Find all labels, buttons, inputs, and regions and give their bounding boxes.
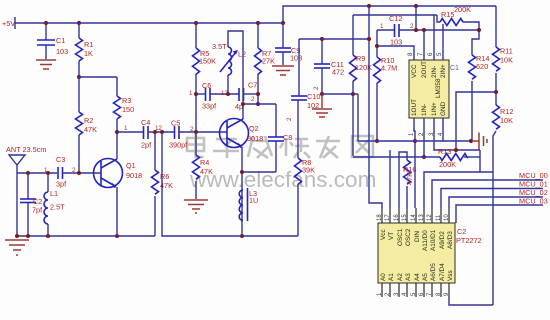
svg-text:620: 620 <box>476 62 488 71</box>
wire MCU_01 <box>441 189 543 209</box>
capacitor C10 <box>291 39 320 110</box>
svg-text:16: 16 <box>394 214 400 221</box>
svg-text:2OUT: 2OUT <box>421 61 428 78</box>
svg-text:11: 11 <box>436 214 442 221</box>
svg-text:2: 2 <box>72 167 76 174</box>
transistor Q1 <box>94 132 143 236</box>
svg-text:2: 2 <box>410 23 414 30</box>
wire C11 node to R9 <box>322 93 358 95</box>
wire +5V to PT2272 Vcc <box>369 6 382 208</box>
svg-text:Q1: Q1 <box>126 161 136 170</box>
svg-text:18: 18 <box>377 214 383 221</box>
svg-text:A2: A2 <box>397 273 404 281</box>
wire pin13 to vss net <box>424 172 493 208</box>
wire VCC pin8 <box>377 46 414 60</box>
svg-text:A3: A3 <box>405 273 412 281</box>
svg-text:47K: 47K <box>200 167 213 176</box>
svg-text:C1: C1 <box>450 65 459 72</box>
svg-text:13: 13 <box>419 214 425 221</box>
svg-text:9018: 9018 <box>126 171 142 180</box>
svg-text:C8: C8 <box>283 133 292 142</box>
node rail junctions <box>44 21 48 25</box>
svg-text:C5: C5 <box>171 119 180 128</box>
svg-text:MCU_03: MCU_03 <box>519 197 548 206</box>
svg-text:R2: R2 <box>84 116 93 125</box>
wire R9 top to R15 <box>353 14 437 16</box>
ground under C1 <box>36 60 56 69</box>
svg-text:1K: 1K <box>84 49 93 58</box>
svg-text:Vss: Vss <box>447 270 454 281</box>
wire C8 bottom to emitter column <box>242 171 276 173</box>
svg-text:200K: 200K <box>454 5 471 14</box>
svg-text:3pf: 3pf <box>56 180 67 189</box>
op-amp U1 LM358 <box>409 60 449 118</box>
svg-text:www.elecfans.com: www.elecfans.com <box>189 167 376 192</box>
svg-text:10: 10 <box>444 214 450 221</box>
capacitor C12 <box>377 14 479 47</box>
svg-text:1: 1 <box>409 132 415 136</box>
svg-text:C2: C2 <box>457 227 466 236</box>
svg-text:OSC2: OSC2 <box>405 228 412 246</box>
ground bottom-left rail <box>5 240 29 255</box>
wire antenna node to Q1 base <box>17 172 57 174</box>
svg-text:2IN-: 2IN- <box>431 66 438 78</box>
svg-text:R15: R15 <box>441 10 454 19</box>
resistor R2 <box>76 77 98 173</box>
svg-text:A8/D3: A8/D3 <box>447 231 454 249</box>
wire R9 node down to R13 <box>352 94 354 156</box>
wire pin5 up <box>442 24 444 60</box>
wire 1OUT to DIN <box>414 118 415 208</box>
svg-text:3.5T: 3.5T <box>212 42 227 51</box>
wire GND pin4 to ground <box>442 118 444 141</box>
svg-text:103: 103 <box>290 54 302 63</box>
resistor R3 <box>114 77 135 132</box>
svg-text:47K: 47K <box>405 172 414 185</box>
svg-text:33pf: 33pf <box>202 102 217 111</box>
svg-text:200K: 200K <box>439 160 456 169</box>
wire rail drop to C12 node <box>415 6 417 30</box>
svg-text:7pf: 7pf <box>32 206 43 215</box>
svg-text:R9: R9 <box>356 54 365 63</box>
wire rail riser and top rail <box>283 6 496 23</box>
capacitor C2 <box>20 173 43 236</box>
capacitor C1 <box>37 23 68 59</box>
ground sideways right <box>472 133 487 150</box>
svg-text:L1: L1 <box>50 189 58 198</box>
svg-text:2pf: 2pf <box>141 141 152 150</box>
wire R5 bottom to base node <box>195 94 197 132</box>
ground under C11 node <box>312 94 332 117</box>
svg-text:10K: 10K <box>500 116 513 125</box>
wire VT pin17 <box>389 150 391 208</box>
svg-text:390pf: 390pf <box>169 141 188 150</box>
wire collector node to C4 <box>117 131 143 133</box>
svg-text:R11: R11 <box>500 47 513 56</box>
svg-text:A9/D2: A9/D2 <box>439 231 446 249</box>
svg-text:472: 472 <box>332 68 344 77</box>
svg-text:+5V: +5V <box>2 19 15 28</box>
svg-text:A10/D1: A10/D1 <box>430 229 437 251</box>
svg-text:15: 15 <box>402 214 408 221</box>
wire ground rail left segment <box>17 235 155 237</box>
svg-text:Q2: Q2 <box>249 124 259 133</box>
svg-text:103: 103 <box>390 38 402 47</box>
resistor R4 <box>193 132 214 199</box>
svg-text:LM358: LM358 <box>435 78 442 98</box>
svg-text:2.5T: 2.5T <box>50 203 65 212</box>
wire Vss loop to R12 column <box>449 297 493 305</box>
ground under C9 <box>272 66 294 75</box>
svg-text:14: 14 <box>411 214 417 221</box>
svg-text:R12: R12 <box>500 107 513 116</box>
capacitor C6 <box>189 81 239 111</box>
capacitor C8 <box>268 104 292 172</box>
capacitor C11 <box>314 39 344 94</box>
pin stubs PT2272 top <box>382 208 449 223</box>
svg-text:27K: 27K <box>262 57 275 66</box>
svg-text:5: 5 <box>437 52 443 56</box>
node collector Q1 <box>115 130 119 134</box>
resistor R6 <box>152 132 174 236</box>
svg-text:A6/D5: A6/D5 <box>430 263 437 281</box>
svg-text:OSC1: OSC1 <box>397 228 404 246</box>
wire MCU_02 <box>449 197 543 208</box>
pin stubs PT2272 bottom <box>382 283 449 297</box>
wire MCU_00 <box>432 180 543 208</box>
svg-text:7: 7 <box>418 52 424 56</box>
svg-text:2: 2 <box>313 86 320 90</box>
svg-text:PT2272: PT2272 <box>456 236 482 245</box>
capacitor C7 <box>235 81 258 112</box>
node R1 bottom <box>77 75 81 79</box>
svg-text:1: 1 <box>189 90 193 97</box>
wire +5V rail top-left <box>15 22 283 24</box>
ground under R4 <box>184 200 208 213</box>
resistor R16 between OSC1 OSC2 <box>399 152 416 208</box>
svg-text:L2: L2 <box>238 50 246 59</box>
svg-text:47K: 47K <box>84 125 97 134</box>
svg-text:ANT 23.5cm: ANT 23.5cm <box>6 145 46 154</box>
svg-text:103: 103 <box>56 47 68 56</box>
svg-text:1OUT: 1OUT <box>411 99 418 116</box>
svg-text:Vcc: Vcc <box>380 229 387 240</box>
svg-text:A11/D0: A11/D0 <box>422 230 429 251</box>
wire pin6 up <box>433 15 435 60</box>
svg-text:1IN+: 1IN+ <box>431 102 438 116</box>
svg-text:R13: R13 <box>438 147 451 156</box>
inductor L2 variable <box>212 31 246 119</box>
svg-text:10K: 10K <box>500 56 513 65</box>
wire R1 to R3 <box>79 76 117 78</box>
svg-text:VT: VT <box>388 232 395 240</box>
svg-text:DIN: DIN <box>414 231 421 242</box>
svg-text:R3: R3 <box>122 96 131 105</box>
resistor R5 <box>193 23 217 94</box>
svg-text:R4: R4 <box>200 158 209 167</box>
svg-text:A1: A1 <box>388 273 395 281</box>
wire MCU_03 <box>456 205 543 223</box>
svg-text:VCC: VCC <box>411 64 418 78</box>
resistor R1 <box>76 23 94 77</box>
capacitor C4 <box>141 118 174 150</box>
svg-text:6: 6 <box>428 52 434 56</box>
svg-text:9018: 9018 <box>247 134 263 143</box>
svg-text:C4: C4 <box>141 118 150 127</box>
svg-text:A5: A5 <box>422 273 429 281</box>
wire C12 node to pin7 <box>423 30 425 60</box>
svg-text:C3: C3 <box>56 155 65 164</box>
wire tank branch to C8 <box>243 103 276 105</box>
wire riser to right ground rail <box>162 132 298 236</box>
svg-text:C10: C10 <box>307 92 320 101</box>
resistor R14 <box>469 54 490 141</box>
svg-text:150: 150 <box>122 105 134 114</box>
inductor L1 <box>44 173 65 236</box>
antenna ANT 23.5cm <box>6 145 46 236</box>
svg-text:C1: C1 <box>56 36 65 45</box>
wire divider to 1IN+ <box>456 92 496 150</box>
svg-text:A0: A0 <box>380 273 387 281</box>
svg-text:2: 2 <box>251 96 255 103</box>
resistor R11 <box>493 6 514 105</box>
svg-text:2: 2 <box>190 126 194 133</box>
transistor Q2 <box>220 119 264 237</box>
svg-text:A4: A4 <box>414 273 421 281</box>
svg-text:150K: 150K <box>199 57 216 66</box>
capacitor C5 <box>169 119 196 150</box>
capacitor C3 <box>56 155 101 189</box>
svg-text:8: 8 <box>408 52 414 56</box>
svg-text:1U: 1U <box>249 196 258 205</box>
svg-text:GND: GND <box>440 101 447 116</box>
resistor R7 <box>255 23 276 104</box>
resistor R8 <box>295 100 316 236</box>
wire C10/R8 top node wire <box>299 38 369 40</box>
inductor L3 <box>239 188 258 221</box>
resistor R10 <box>374 30 398 141</box>
svg-text:C7: C7 <box>248 81 257 90</box>
svg-text:4.7M: 4.7M <box>381 64 397 73</box>
svg-text:1: 1 <box>124 125 128 132</box>
wire 1IN- pin2 down <box>423 118 425 157</box>
svg-text:2: 2 <box>286 117 293 121</box>
svg-text:1: 1 <box>380 23 384 30</box>
svg-text:2IN+: 2IN+ <box>440 64 447 78</box>
wire R10 bottom to 1OUT node and gnd wire <box>358 140 471 142</box>
decoder U2 PT2272 <box>378 223 455 283</box>
svg-text:A7/D4: A7/D4 <box>439 263 446 281</box>
svg-text:17: 17 <box>385 214 391 221</box>
svg-text:C6: C6 <box>202 81 211 90</box>
svg-text:39K: 39K <box>302 166 315 175</box>
resistor R9 <box>350 15 373 94</box>
node base wire junctions <box>26 171 30 175</box>
capacitor C9 <box>275 23 302 65</box>
resistor R13 <box>353 147 480 172</box>
resistor R12 <box>493 105 514 305</box>
resistor R15 <box>437 5 479 55</box>
svg-text:R1: R1 <box>84 40 93 49</box>
svg-text:12: 12 <box>427 214 433 221</box>
svg-text:1IN-: 1IN- <box>421 104 428 116</box>
wire C5 to Q2 base <box>196 131 227 133</box>
